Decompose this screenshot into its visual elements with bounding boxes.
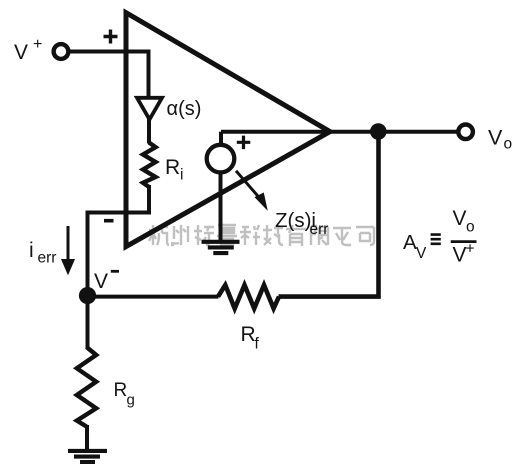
resistor Ri (vertical zigzag) <box>143 143 156 188</box>
op-amp U1 (main amplifier triangle) <box>126 13 330 247</box>
svg-text:err: err <box>310 221 329 238</box>
ground (bottom, below Rg) <box>68 451 107 462</box>
wire: node V- down to Rg <box>86 294 90 348</box>
junction dot at output node <box>370 123 387 140</box>
wire: V+ terminal into buffer chain <box>68 52 149 97</box>
svg-text:g: g <box>127 392 135 409</box>
plus marking at current source <box>237 136 251 150</box>
ground (below current source) <box>202 242 240 253</box>
label ierr with current arrow <box>29 239 56 267</box>
svg-text:o: o <box>504 136 513 153</box>
svg-text:V: V <box>94 270 108 293</box>
svg-text:+: + <box>466 241 475 258</box>
resistor Rg (vertical zigzag) <box>77 347 96 427</box>
svg-text:+: + <box>33 36 42 53</box>
arrow from current source to Z(s)ierr label <box>236 171 267 210</box>
label Vo <box>488 125 512 152</box>
wire: Ri down, left along inverting rail, down to node V- <box>88 185 150 296</box>
label Ri <box>165 156 183 184</box>
svg-text:i: i <box>29 239 34 262</box>
wire: output line from current source / op-amp apex to Vo terminal <box>221 130 457 134</box>
wire: Rf to output node (feedback) <box>279 130 379 297</box>
label Z(s)ierr <box>275 209 328 238</box>
svg-text:err: err <box>38 250 57 267</box>
svg-text:V: V <box>453 207 467 230</box>
svg-text:A: A <box>403 231 417 254</box>
svg-text:V: V <box>416 245 427 262</box>
svg-text:i: i <box>180 167 183 184</box>
svg-text:R: R <box>241 323 256 346</box>
wire: node V- to Rf <box>88 295 219 299</box>
svg-text:R: R <box>114 380 128 401</box>
input terminal V+ (open circle) <box>54 44 69 59</box>
formula Av = Vo/V+ <box>403 207 477 267</box>
label Rg <box>114 380 135 409</box>
node dot V- <box>79 287 96 304</box>
current arrow ierr (downward) <box>62 226 75 274</box>
svg-text:V: V <box>488 125 503 149</box>
plus marking at noninverting input <box>104 30 118 44</box>
wire: Rg to ground <box>85 425 89 450</box>
svg-text:α(s): α(s) <box>167 98 202 120</box>
svg-text:R: R <box>165 156 180 179</box>
wire: current source riser to output line <box>219 132 223 144</box>
resistor Rf (horizontal zigzag) <box>218 285 279 309</box>
svg-text:V: V <box>453 244 467 267</box>
output terminal Vo (open circle) <box>458 125 473 140</box>
svg-text:V: V <box>14 41 28 64</box>
watermark 杭州将睿科技有限公司 (light gray stamp) <box>149 225 374 246</box>
svg-text:f: f <box>255 336 260 353</box>
label V+ <box>14 36 42 64</box>
label Rf <box>241 323 260 353</box>
wire: buffer to Ri <box>147 118 151 144</box>
wire: current source to ground <box>219 172 223 241</box>
label V- (inverting node) <box>94 270 119 293</box>
current source Z(s)ierr (circle) <box>207 145 235 173</box>
buffer amplifier a(s) (small down-pointing triangle) <box>137 98 162 120</box>
minus marking at inverting input <box>104 219 114 223</box>
svg-text:o: o <box>466 219 475 236</box>
